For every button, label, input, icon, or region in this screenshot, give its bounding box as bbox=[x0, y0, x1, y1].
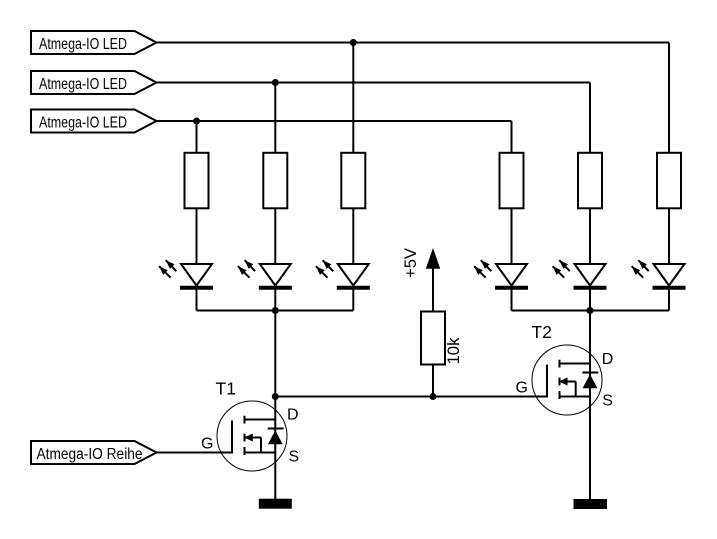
svg-text:Atmega-IO LED: Atmega-IO LED bbox=[39, 36, 127, 53]
LED D2 bbox=[238, 260, 292, 288]
wire R6 to LED6 bbox=[668, 209, 670, 266]
wire LED5 to right bus bbox=[589, 287, 591, 311]
wire R5 to LED5 bbox=[589, 209, 591, 266]
transistor T2 bbox=[516, 322, 614, 415]
wire LED3 to left bus bbox=[352, 287, 354, 311]
transistor T1 bbox=[201, 379, 299, 472]
wire row1 down to R6 bbox=[668, 43, 670, 154]
wire left cathode bus bbox=[197, 310, 354, 312]
svg-text:S: S bbox=[602, 393, 613, 410]
junction dot R7 / gate net bbox=[430, 393, 437, 400]
svg-text:D: D bbox=[287, 407, 299, 424]
junction dot row3/col1 bbox=[193, 118, 200, 125]
wire row3 down to R4 bbox=[511, 121, 513, 153]
wire LED6 to right bus bbox=[668, 287, 670, 311]
net flag Atmega-IO LED (row 2) bbox=[31, 71, 157, 94]
wire row3 down to R1 bbox=[196, 121, 198, 153]
wire right cathode bus bbox=[512, 310, 670, 312]
junction dot T1 drain node bbox=[272, 393, 279, 400]
svg-text:Atmega-IO Reihe: Atmega-IO Reihe bbox=[37, 446, 143, 463]
resistor R2 bbox=[263, 153, 287, 209]
wire R7 to gate net bbox=[432, 365, 434, 397]
junction dot right bus col5 bbox=[587, 307, 594, 314]
svg-text:G: G bbox=[201, 436, 213, 453]
wire row1 down to R3 bbox=[352, 43, 354, 154]
net flag Atmega-IO LED (row 3) bbox=[31, 110, 157, 133]
wire col2 bus to T1/ground bbox=[274, 311, 276, 504]
svg-text:Atmega-IO LED: Atmega-IO LED bbox=[39, 115, 127, 132]
wire LED2 to left bus bbox=[274, 287, 276, 311]
resistor R7 10k bbox=[421, 312, 463, 365]
resistor R3 bbox=[341, 153, 365, 209]
power +5V symbol bbox=[401, 247, 440, 278]
svg-text:10k: 10k bbox=[445, 337, 463, 365]
svg-text:D: D bbox=[602, 351, 614, 368]
wire R4 to LED4 bbox=[511, 209, 513, 266]
junction dot left bus col2 bbox=[272, 307, 279, 314]
wire flag Reihe to T1 gate bbox=[157, 452, 233, 454]
wire row2 down to R2 bbox=[274, 83, 276, 154]
svg-text:S: S bbox=[289, 449, 300, 466]
wire R3 to LED3 bbox=[352, 209, 354, 266]
net flag Atmega-IO Reihe bbox=[31, 441, 157, 464]
wire T1 drain node to T2 gate bbox=[275, 396, 547, 398]
resistor R5 bbox=[578, 153, 602, 209]
LED D5 bbox=[553, 260, 607, 288]
wire row1 horizontal bbox=[157, 42, 670, 44]
LED D1 bbox=[159, 260, 213, 288]
wire LED1 to left bus bbox=[196, 287, 198, 311]
wire col5 bus to T2/ground bbox=[589, 311, 591, 504]
svg-text:T2: T2 bbox=[532, 322, 552, 342]
resistor R6 bbox=[657, 153, 681, 209]
svg-text:Atmega-IO LED: Atmega-IO LED bbox=[39, 76, 127, 93]
LED D3 bbox=[316, 260, 370, 288]
resistor R1 bbox=[185, 153, 209, 209]
wire row3 horizontal bbox=[157, 120, 512, 122]
LED D6 bbox=[632, 260, 686, 288]
wire R2 to LED2 bbox=[274, 209, 276, 266]
wire row2 down to R5 bbox=[589, 83, 591, 154]
wire R1 to LED1 bbox=[196, 209, 198, 266]
svg-text:+5V: +5V bbox=[401, 247, 420, 278]
wire +5V to R7 bbox=[432, 268, 434, 312]
wire row2 horizontal bbox=[157, 82, 591, 84]
LED D4 bbox=[474, 260, 528, 288]
net flag Atmega-IO LED (row 1) bbox=[31, 31, 157, 54]
wire LED4 to right bus bbox=[511, 287, 513, 311]
svg-text:G: G bbox=[516, 380, 528, 397]
junction dot row2/col2 bbox=[272, 79, 279, 86]
svg-text:T1: T1 bbox=[216, 379, 236, 399]
junction dot row1/col3 bbox=[350, 39, 357, 46]
ground (T1 source) bbox=[259, 499, 292, 509]
resistor R4 bbox=[500, 153, 524, 209]
ground (T2 source) bbox=[574, 499, 608, 509]
